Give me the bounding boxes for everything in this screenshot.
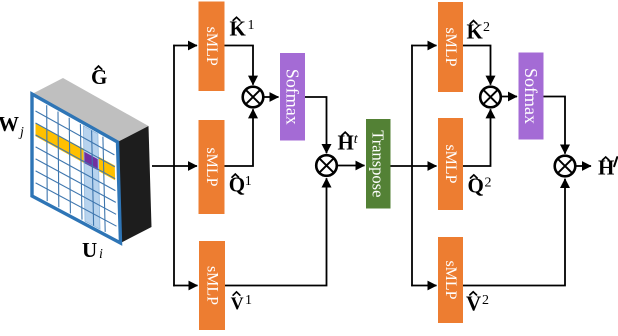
- wire branch to sMLP K2: [411, 45, 436, 47]
- svg-text:1: 1: [245, 174, 252, 189]
- svg-text:1: 1: [245, 293, 252, 308]
- cube top face: [32, 78, 149, 142]
- svg-text:sMLP: sMLP: [442, 144, 459, 183]
- yellow row W_j: [36, 123, 116, 181]
- Sofmax block 1: [280, 53, 305, 141]
- cube front face background: [32, 94, 121, 243]
- svg-text:2: 2: [483, 20, 490, 35]
- label K2 hat: [467, 19, 491, 43]
- multiplier M2 (circle-x): [316, 155, 337, 176]
- label Q2 hat: [468, 174, 492, 198]
- svg-text:1: 1: [248, 18, 255, 33]
- light blue column U_i: [83, 126, 100, 229]
- sMLP K1 block: [199, 2, 225, 92]
- grid vertical lines: [47, 105, 105, 232]
- wire Sofmax2 to multiplier M4: [544, 97, 566, 154]
- wire branch to sMLP V2: [411, 285, 436, 287]
- svg-text:V: V: [466, 291, 481, 315]
- svg-text:Sofmax: Sofmax: [521, 68, 541, 124]
- svg-text:Sofmax: Sofmax: [283, 69, 303, 125]
- label W_j: [0, 112, 24, 140]
- label K1 hat: [230, 17, 255, 41]
- input tensor cube: [32, 78, 152, 243]
- svg-text:sMLP: sMLP: [442, 27, 459, 66]
- label H' output: [598, 156, 617, 180]
- grid horizontal lines: [36, 111, 117, 226]
- svg-text:K: K: [230, 17, 247, 41]
- svg-text:sMLP: sMLP: [203, 27, 220, 66]
- multiplier M4 (circle-x): [555, 156, 576, 177]
- wire M3 to Sofmax2: [501, 96, 517, 98]
- wire V2 out to multiplier M4: [463, 179, 565, 286]
- Sofmax block 2: [519, 53, 544, 140]
- sMLP V1 block: [199, 241, 225, 330]
- purple intersection cell: [84, 152, 98, 171]
- wire V1 out to multiplier M2: [225, 178, 327, 285]
- svg-text:W: W: [0, 112, 19, 136]
- svg-text:H: H: [598, 156, 614, 180]
- svg-text:sMLP: sMLP: [442, 260, 459, 299]
- multiplier M1 (circle-x): [243, 87, 264, 108]
- svg-text:sMLP: sMLP: [204, 266, 221, 305]
- svg-text:U: U: [82, 238, 97, 262]
- wire cube to branch and into sMLP Q1: [152, 165, 197, 167]
- branch vertical line stage 2: [411, 45, 413, 287]
- wire M1 to Sofmax1: [263, 96, 278, 98]
- sMLP Q2 block: [438, 118, 463, 210]
- svg-text:G: G: [91, 65, 107, 89]
- wire branch to sMLP V1: [173, 285, 197, 287]
- sMLP K2 block: [438, 2, 463, 92]
- wire M2 to Transpose: [337, 165, 365, 167]
- svg-text:2: 2: [482, 293, 489, 308]
- wire Q2 out to multiplier M3: [463, 109, 491, 166]
- label Q1 hat: [229, 172, 252, 196]
- sMLP V2 block: [438, 237, 463, 323]
- svg-text:V: V: [231, 294, 244, 314]
- label V1 hat: [231, 292, 252, 314]
- wire K2 out to multiplier M3: [463, 46, 491, 85]
- sMLP Q1 block: [199, 120, 225, 214]
- Transpose block: [366, 119, 391, 209]
- wire branch to sMLP K1: [173, 45, 197, 47]
- svg-text:i: i: [99, 247, 103, 262]
- svg-text:2: 2: [485, 176, 492, 191]
- svg-text:Transpose: Transpose: [369, 130, 388, 197]
- wire Transpose to branch 2 and into sMLP Q2: [391, 165, 437, 167]
- label H^t: [338, 130, 359, 154]
- svg-text:H: H: [338, 130, 354, 154]
- wire M4 to output H': [575, 165, 591, 167]
- branch vertical line stage 1: [173, 45, 175, 287]
- cube front border: [32, 94, 121, 243]
- cube right face: [118, 126, 152, 243]
- multiplier M3 (circle-x): [480, 87, 501, 108]
- label G hat: [91, 65, 107, 89]
- wire Sofmax1 to multiplier M2: [305, 97, 327, 153]
- label U_i: [82, 238, 103, 262]
- wire Q1 out to multiplier M1: [225, 109, 254, 166]
- label V2 hat: [466, 291, 489, 315]
- wire K1 out to multiplier M1: [225, 46, 254, 85]
- svg-text:sMLP: sMLP: [203, 147, 220, 186]
